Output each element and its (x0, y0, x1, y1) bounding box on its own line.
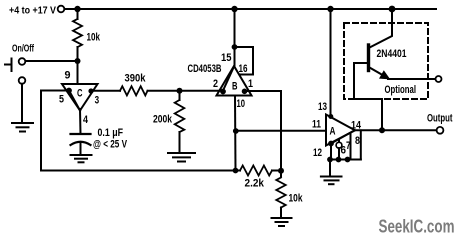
resistor R4 2.2k (240, 166, 272, 176)
svg-text:16: 16 (239, 63, 248, 75)
ground G2 (71, 154, 92, 156)
svg-text:2N4401: 2N4401 (377, 48, 407, 60)
pin 16 loop (235, 47, 254, 75)
pin 1 node dot (242, 89, 248, 95)
switch S1 lower contact (19, 77, 26, 84)
wire switch to ground (21, 84, 23, 123)
svg-text:On/Off: On/Off (12, 44, 34, 55)
svg-text:10: 10 (237, 98, 246, 110)
junction dot rail/10k (74, 6, 80, 12)
wiper arm of A (331, 130, 355, 143)
dashed optional box (344, 23, 428, 99)
pin 3 node dot (88, 88, 93, 93)
switch S1 upper contact (19, 58, 26, 65)
svg-text:390k: 390k (125, 72, 147, 84)
svg-text:200k: 200k (153, 113, 173, 125)
svg-text:9: 9 (65, 70, 71, 82)
svg-text:+4 to +17 V: +4 to +17 V (9, 6, 56, 17)
junction dot pin13/top edge (328, 114, 333, 119)
svg-text:12: 12 (313, 147, 322, 159)
junction dot 2.2k/10k (278, 168, 284, 174)
pin 10 wire (234, 96, 237, 171)
switch S1 lever (11, 59, 13, 72)
pin 13 supply wire (330, 9, 332, 117)
optional output terminal circle (436, 76, 442, 82)
emitter wire to terminal (388, 78, 436, 80)
resistor R5 10k (276, 178, 285, 208)
svg-text:SeekIC.com: SeekIC.com (379, 217, 455, 237)
ground G5 (321, 176, 342, 178)
op-amp section C of CD4053B (62, 84, 98, 111)
ground G4 (272, 217, 292, 219)
svg-text:2.2k: 2.2k (245, 177, 265, 189)
svg-text:4: 4 (83, 114, 89, 126)
junction dot switch tap (75, 58, 81, 64)
pin 4 wire (apex of C) (79, 109, 82, 134)
transistor Q1 base wire (354, 63, 382, 130)
ground G3 (168, 152, 195, 154)
svg-text:5: 5 (59, 94, 64, 106)
junction dot bottom rail / pin10 (233, 168, 239, 174)
pin 15 supply wire (234, 9, 236, 66)
svg-text:10k: 10k (289, 192, 304, 204)
pin 1 wire (246, 90, 281, 92)
wire 10k to ground (280, 171, 282, 176)
node dot 390k/200k (177, 88, 183, 94)
junction dot rail/pin15 (231, 6, 237, 12)
svg-text:10k: 10k (87, 32, 101, 44)
power rail +4 to +17 V (65, 8, 437, 10)
svg-text:15: 15 (221, 52, 232, 64)
wire node to 200k (179, 93, 181, 100)
pin 7 stub (350, 133, 352, 160)
wire 390k to node (148, 90, 178, 92)
transistor Q1 collector (370, 9, 393, 48)
pin 11 wire to A (236, 130, 326, 132)
wire 2.2k right stub (272, 170, 281, 172)
junction dot output/base (379, 127, 385, 133)
wiper arm of C (69, 91, 80, 111)
wire capacitor to ground (80, 143, 82, 155)
svg-text:8: 8 (355, 135, 360, 147)
op-amp section A of CD4053B (326, 115, 355, 146)
svg-text:CD4053B: CD4053B (188, 63, 222, 75)
pin 3 wire (92, 90, 120, 92)
junction dot rail/collector (389, 6, 396, 13)
pin 6 stub (338, 148, 340, 159)
wire rail to resistor R1 (77, 9, 79, 19)
svg-text:C: C (77, 88, 83, 100)
wire bus to ground (329, 160, 331, 177)
junction dot pin15/pin16 (232, 44, 238, 50)
svg-text:7: 7 (346, 140, 351, 152)
pin 5 wire (41, 90, 67, 92)
junction dot pin10/pin11 (233, 128, 239, 134)
bottom feedback wire (41, 170, 240, 172)
wire 200k to ground (179, 132, 181, 153)
wiper arm of B (223, 67, 235, 92)
pin 8 stub (360, 130, 362, 159)
svg-text:B: B (232, 81, 238, 93)
feedback wire left leg (40, 91, 42, 171)
transistor Q1 2N4401 base bar (367, 45, 370, 71)
wire pin1 down to divider (280, 91, 282, 171)
wire node to pin 2 of B (182, 90, 220, 92)
svg-text:2: 2 (213, 78, 218, 90)
output terminal circle (437, 127, 444, 134)
resistor R2 390k (120, 86, 148, 95)
resistor R3 200k (175, 100, 185, 132)
output wire pin 14 (355, 129, 437, 131)
svg-text:@ < 25 V: @ < 25 V (93, 139, 127, 151)
svg-text:0.1 μF: 0.1 μF (98, 127, 124, 139)
svg-text:Optional: Optional (385, 84, 417, 96)
inhibit bubble pin 6 (338, 139, 340, 142)
svg-text:3: 3 (95, 95, 100, 107)
junction dot rail/pin13 (327, 6, 333, 12)
resistor R1 10k (73, 19, 82, 47)
ground bus under A (330, 159, 361, 161)
svg-text:13: 13 (318, 101, 327, 113)
svg-text:11: 11 (312, 118, 321, 130)
ground G1 (12, 122, 33, 124)
svg-text:1: 1 (248, 78, 253, 90)
capacitor C1 0.1uF top plate (71, 133, 91, 135)
power terminal circle (58, 6, 65, 13)
wire R1 to pin 9 of C (77, 47, 79, 84)
transistor Q1 emitter (370, 68, 387, 78)
svg-text:Output: Output (427, 113, 453, 125)
switch S1 wire to node (25, 60, 77, 62)
analog switch section B of CD4053B (217, 66, 252, 96)
bus junction dots (327, 157, 333, 163)
svg-text:A: A (330, 125, 336, 137)
capacitor C1 bottom plate (71, 142, 91, 145)
pin 12 stub (330, 144, 332, 160)
